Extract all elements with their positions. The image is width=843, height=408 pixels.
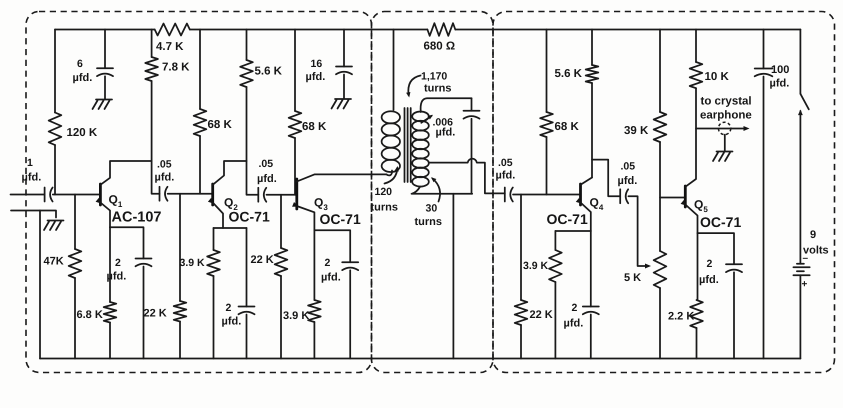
svg-text:µfd.: µfd. — [564, 318, 584, 330]
svg-text:1,170: 1,170 — [421, 71, 447, 83]
capacitor C 2 ufd (Q5 bypass) — [698, 233, 735, 264]
transistor Q2 base bar — [211, 184, 214, 205]
stage-1-3 dashed enclosure — [26, 12, 372, 373]
transistor Q1 emitter arrow — [96, 198, 102, 204]
svg-text:to crystal: to crystal — [701, 96, 752, 108]
capacitor C .05 ufd (Q1-Q2 coupling) — [159, 187, 161, 201]
resistor R 68K (Q3 base bias) — [289, 111, 302, 138]
svg-text:µfd.: µfd. — [22, 172, 42, 184]
wire: Q1 emitter to 6.8K — [109, 227, 111, 302]
capacitor C 2 ufd (Q3 bypass) — [314, 230, 350, 262]
capacitor C 2 ufd (Q4 bypass) — [590, 231, 592, 307]
svg-text:turns: turns — [424, 83, 452, 95]
transistor Q5 base bar — [684, 186, 687, 207]
resistor R 6.8K — [104, 302, 117, 323]
svg-text:earphone: earphone — [700, 110, 752, 122]
svg-text:10 K: 10 K — [705, 71, 730, 83]
resistor R 22K (Q2 base to bus) — [179, 194, 181, 301]
resistor R 680 ohm (series in rail) — [427, 23, 455, 36]
wire: rail to 10K — [695, 30, 697, 63]
switch S1 blade — [800, 94, 808, 110]
svg-text:120 K: 120 K — [67, 127, 98, 139]
resistor R 39K — [654, 112, 667, 142]
wire: top supply rail — [55, 29, 800, 31]
svg-text:µfd.: µfd. — [699, 274, 719, 286]
svg-text:µfd.: µfd. — [321, 272, 341, 284]
wire: rail to 68K no.1 — [199, 30, 201, 110]
capacitor C .05 ufd (Q2-Q3 coupling) — [257, 188, 259, 202]
wire: 5.6K down to coupling cap 2 — [247, 87, 259, 195]
ground: 16ufd — [332, 99, 352, 109]
wire: Q2 emitter branch — [214, 227, 247, 229]
resistor R 7.8K — [145, 57, 158, 81]
battery B1 9 volts — [793, 264, 809, 276]
potentiometer R 5K — [654, 251, 667, 288]
svg-text:68 K: 68 K — [208, 119, 233, 131]
transistor Q2 emitter lead — [213, 203, 223, 229]
arrow: 1,170 turns leader — [408, 76, 420, 96]
svg-text:OC-71: OC-71 — [229, 209, 270, 225]
svg-text:.05: .05 — [157, 159, 172, 171]
ground: 6ufd — [93, 100, 113, 110]
wire: 2ufd to bus — [143, 267, 145, 359]
svg-text:.05: .05 — [621, 161, 636, 173]
stage-4-5 dashed enclosure — [493, 12, 835, 373]
svg-text:µfd.: µfd. — [107, 271, 127, 283]
wire: bottom ground bus — [40, 358, 800, 360]
resistor R 3.9K (Q3 emitter) — [313, 230, 315, 300]
resistor R 4.7K (series in rail) — [155, 24, 190, 36]
wire: coupling cap 2 to Q3 base — [267, 194, 297, 196]
resistor R 120K — [49, 113, 62, 146]
wire: Q4 emitter branch — [555, 230, 590, 232]
capacitor C 2 ufd (Q1 bypass) — [136, 258, 152, 260]
transistor Q3 base bar — [295, 179, 298, 209]
svg-text:AC-107: AC-107 — [112, 210, 162, 226]
svg-text:.05: .05 — [259, 158, 274, 170]
resistor R 10K — [690, 62, 703, 88]
wire: rail to 100ufd — [763, 30, 765, 69]
wire: 100ufd to bus — [763, 77, 765, 359]
resistor R 22K (Q4 base to bus) — [520, 195, 522, 301]
svg-text:2: 2 — [325, 257, 331, 269]
wire: rail down to transformer primary — [393, 30, 395, 111]
transistor Q4 base bar — [579, 184, 582, 205]
wire: 7.8K down to Q1 collector node and .05 cap — [152, 81, 160, 194]
svg-text:9: 9 — [810, 229, 816, 241]
capacitor C .006 ufd — [471, 98, 473, 111]
capacitor C 100 ufd — [755, 68, 773, 70]
svg-text:µfd.: µfd. — [257, 173, 277, 185]
svg-text:100: 100 — [771, 64, 789, 76]
wire: 120K to input line — [54, 145, 56, 195]
svg-text:volts: volts — [803, 245, 829, 257]
transistor Q3 emitter arrow — [292, 202, 299, 207]
transformer T1 core — [405, 108, 411, 182]
svg-text:µfd.: µfd. — [618, 175, 638, 187]
earphone connection circle (dashed) — [718, 122, 730, 134]
transistor Q4 emitter lead — [581, 203, 591, 232]
arrow: winding pointer to .006 — [421, 116, 431, 123]
transformer T1 secondary winding — [412, 112, 429, 122]
svg-text:µfd.: µfd. — [73, 72, 93, 84]
wire: rail to 7.8K — [151, 30, 153, 58]
svg-text:22 K: 22 K — [251, 254, 274, 266]
wire: primary bottom tail to Q3 collector line — [387, 171, 393, 176]
transistor Q1 collector lead — [100, 161, 151, 185]
svg-text:16: 16 — [311, 58, 323, 70]
svg-text:turns: turns — [371, 202, 399, 214]
wire: cap to 5K pot wiper — [628, 196, 648, 266]
svg-text:OC-71: OC-71 — [320, 211, 361, 227]
transistor Q5 collector lead — [685, 88, 696, 187]
capacitor C 16 ufd — [336, 66, 352, 68]
wire: input line to Q1 base — [53, 194, 101, 196]
wire: secondary tap with crossover hop — [429, 159, 505, 194]
wire: rail left end down — [54, 30, 56, 113]
transistor Q5 emitter lead — [685, 205, 697, 234]
wire: 6ufd to ground — [104, 76, 106, 99]
transformer dashed enclosure — [372, 12, 494, 373]
svg-text:6.8 K: 6.8 K — [77, 309, 103, 321]
capacitor C .05 ufd (Q4 collector to 5K pot) — [619, 189, 621, 203]
resistor R 47K (Q1 base to bus) — [74, 195, 76, 250]
svg-text:3.9 K: 3.9 K — [283, 310, 309, 322]
wire: switch to battery — [799, 111, 801, 264]
wire: transformer return to bus — [452, 194, 454, 359]
svg-text:µfd.: µfd. — [306, 71, 326, 83]
wire: 5K pot to bus — [659, 288, 661, 359]
ground: input return — [44, 221, 64, 231]
wire: secondary bottom to bus junction — [412, 187, 473, 194]
wire: rail to 16ufd — [343, 30, 345, 67]
switch S1 lower contact arrow — [798, 110, 803, 116]
svg-text:30: 30 — [426, 203, 438, 215]
wire: rail to 6ufd — [104, 30, 106, 69]
wire: coupling cap to Q2 base — [168, 193, 213, 195]
wire: rail to 5.6K no.1 — [246, 30, 248, 61]
transistor Q1 base bar — [99, 184, 102, 205]
svg-text:4.7 K: 4.7 K — [156, 41, 184, 53]
resistor R 3.9K (Q4 emitter) — [554, 231, 556, 250]
transformer T1 primary winding — [382, 111, 400, 123]
wire: battery to bus — [799, 275, 801, 358]
wire: input return down to bus — [39, 211, 41, 359]
svg-text:µfd.: µfd. — [770, 78, 790, 90]
svg-text:2.2 K: 2.2 K — [668, 311, 694, 323]
transistor Q3 collector lead — [297, 174, 387, 181]
resistor R 22K (Q3 base to bus) — [280, 195, 282, 248]
svg-text:2: 2 — [226, 302, 232, 314]
wire: rail to 5.6K no.2 — [591, 30, 593, 66]
svg-text:2: 2 — [115, 257, 121, 269]
wire: input return line — [11, 211, 56, 218]
svg-text:680 Ω: 680 Ω — [424, 41, 456, 53]
arrow: 30 turns leader — [433, 179, 441, 202]
resistor R 68K (Q4 base bias) — [540, 112, 553, 137]
svg-text:OC-71: OC-71 — [700, 214, 741, 230]
capacitor C 6 ufd — [97, 67, 113, 69]
ground: earphone — [713, 152, 733, 162]
resistor R 5.6K (Q4 collector load) — [586, 65, 599, 83]
resistor R 68K (Q2 base bias) — [194, 109, 207, 136]
svg-text:6: 6 — [77, 58, 83, 70]
resistor R 3.9K (Q2 emitter) — [213, 228, 215, 250]
arrow: 120 turns leader — [385, 168, 398, 184]
wire: cap to Q4 base — [513, 194, 581, 196]
svg-text:OC-71: OC-71 — [547, 211, 588, 227]
capacitor C .05 ufd (to Q4 base) — [504, 188, 506, 202]
capacitor C 2 ufd (Q2 bypass) — [246, 228, 248, 307]
transistor Q1 emitter lead — [100, 203, 110, 228]
svg-text:+: + — [802, 279, 808, 290]
wire: Q1 emitter branch to 2ufd — [110, 227, 144, 258]
wire: rail right end down to switch — [799, 30, 801, 94]
wire: secondary top to .006 cap — [421, 98, 472, 112]
svg-text:µfd.: µfd. — [436, 127, 456, 139]
arrow: 5K pot wiper — [645, 264, 651, 269]
resistor R 5.6K (Q2 collector load) — [240, 60, 253, 87]
wire: rail to 39K — [659, 30, 661, 113]
capacitor C-in 1 ufd (series) — [44, 188, 46, 202]
svg-text:7.8 K: 7.8 K — [162, 62, 190, 74]
svg-text:39 K: 39 K — [624, 125, 649, 137]
wire: 39K to 5K pot — [659, 142, 661, 251]
wire: Q4 collector node to .05 cap and 5K wiper — [592, 160, 620, 197]
svg-text:3.9 K: 3.9 K — [523, 260, 549, 272]
svg-text:2: 2 — [572, 302, 578, 314]
transistor Q4 emitter arrow — [576, 198, 582, 204]
svg-text:68 K: 68 K — [555, 121, 580, 133]
wire: rail to 68K no.3 — [546, 30, 548, 113]
svg-text:.05: .05 — [498, 157, 513, 169]
svg-text:µfd.: µfd. — [222, 316, 242, 328]
wire: rail to 68K no.2 — [294, 30, 296, 112]
svg-text:µfd.: µfd. — [155, 172, 175, 184]
transistor Q2 emitter arrow — [208, 198, 214, 204]
wire: Q5 base from 39K/5K junction — [660, 197, 685, 199]
wire: input signal line — [11, 194, 45, 196]
svg-text:120: 120 — [375, 186, 393, 198]
svg-text:22 K: 22 K — [144, 308, 167, 320]
svg-text:47K: 47K — [44, 256, 64, 268]
transistor Q5 emitter arrow — [681, 200, 687, 206]
svg-text:5.6 K: 5.6 K — [555, 68, 583, 80]
svg-text:5 K: 5 K — [624, 272, 641, 284]
svg-text:68 K: 68 K — [302, 121, 327, 133]
wire: earphone return to ground — [724, 135, 726, 151]
svg-text:22 K: 22 K — [530, 309, 553, 321]
svg-text:1: 1 — [27, 157, 33, 169]
svg-text:5.6 K: 5.6 K — [255, 66, 283, 78]
wire: earphone take-off with arrow — [696, 128, 747, 130]
resistor R 2.2K (Q5 emitter) — [697, 233, 699, 300]
transistor Q2 collector lead — [213, 161, 247, 185]
svg-text:3.9 K: 3.9 K — [180, 257, 206, 269]
svg-text:2: 2 — [707, 258, 713, 270]
transistor Q3 emitter lead — [297, 206, 315, 230]
svg-text:µfd.: µfd. — [496, 170, 516, 182]
transistor Q4 collector lead — [581, 178, 593, 185]
svg-text:turns: turns — [415, 216, 443, 228]
